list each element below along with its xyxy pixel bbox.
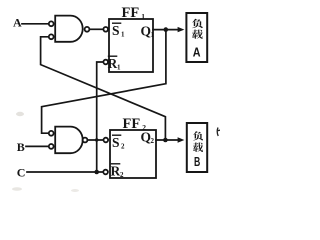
load A box <box>186 13 207 62</box>
faint scan smudges <box>16 112 24 116</box>
G1 output bubble <box>85 27 90 32</box>
svg-text:B: B <box>194 154 200 169</box>
svg-text:S: S <box>112 23 120 38</box>
wire input C to R2 bubble <box>27 171 103 173</box>
svg-text:1: 1 <box>117 64 121 72</box>
wire Q2 to load B <box>156 139 179 141</box>
glyph 负 load B <box>193 131 203 140</box>
overline R1 <box>108 55 118 57</box>
R2 input bubble <box>103 170 108 175</box>
G2 output bubble <box>83 138 88 143</box>
svg-text:B: B <box>17 140 25 154</box>
svg-text:R: R <box>111 164 121 179</box>
svg-text:1: 1 <box>151 31 155 39</box>
svg-text:1: 1 <box>141 12 145 21</box>
G1 input bubble bottom <box>49 34 54 39</box>
overline S1 <box>112 22 121 24</box>
wire G2 output to S2 bubble <box>87 139 103 141</box>
glyph 载 load A <box>192 30 203 39</box>
svg-text:Q: Q <box>141 24 152 39</box>
svg-text:FF: FF <box>123 116 141 132</box>
arrowhead into load A <box>178 27 185 32</box>
scan artifact right edge <box>217 128 220 137</box>
G1 input bubble top <box>49 21 54 26</box>
wire R1 to C line (vertical) <box>97 62 104 172</box>
svg-text:C: C <box>17 165 26 179</box>
wire Q1 feedback to G2 top input <box>42 30 166 134</box>
svg-text:S: S <box>112 135 120 150</box>
junction dot Q1 branch <box>164 27 169 32</box>
svg-text:Q: Q <box>141 130 152 145</box>
svg-text:2: 2 <box>151 137 155 145</box>
glyph 负 load A <box>192 19 203 28</box>
G2 input bubble bottom <box>49 144 54 149</box>
junction dot Q2 branch <box>163 138 168 143</box>
svg-text:FF: FF <box>122 5 140 21</box>
wire G1 output to S1 bubble <box>89 28 103 30</box>
wire input B <box>26 145 49 147</box>
svg-text:A: A <box>13 15 22 29</box>
flip-flop FF1 box <box>109 19 153 72</box>
wire input A <box>22 23 49 25</box>
overline S2 <box>112 134 121 136</box>
svg-text:R: R <box>108 56 118 71</box>
junction dot R1/C <box>94 170 99 175</box>
R1 input bubble <box>103 60 108 65</box>
NAND gate G1 <box>55 16 82 42</box>
overline R2 <box>111 163 121 165</box>
S1 input bubble <box>103 27 108 32</box>
NAND gate G2 <box>55 127 82 154</box>
glyph 载 load B <box>193 142 203 152</box>
wire Q1 to load A <box>153 29 179 31</box>
G2 input bubble top <box>49 131 54 136</box>
flip-flop FF2 box <box>110 130 156 178</box>
S2 input bubble <box>104 138 109 143</box>
svg-text:2: 2 <box>120 171 124 179</box>
svg-text:A: A <box>193 45 201 60</box>
arrowhead into load B <box>178 137 185 142</box>
junction dot crossing at S2 wire <box>95 138 98 141</box>
svg-text:1: 1 <box>121 31 125 39</box>
load B box <box>187 123 207 172</box>
svg-text:2: 2 <box>121 143 125 151</box>
wire Q2 feedback to G1 bottom input <box>41 37 166 140</box>
